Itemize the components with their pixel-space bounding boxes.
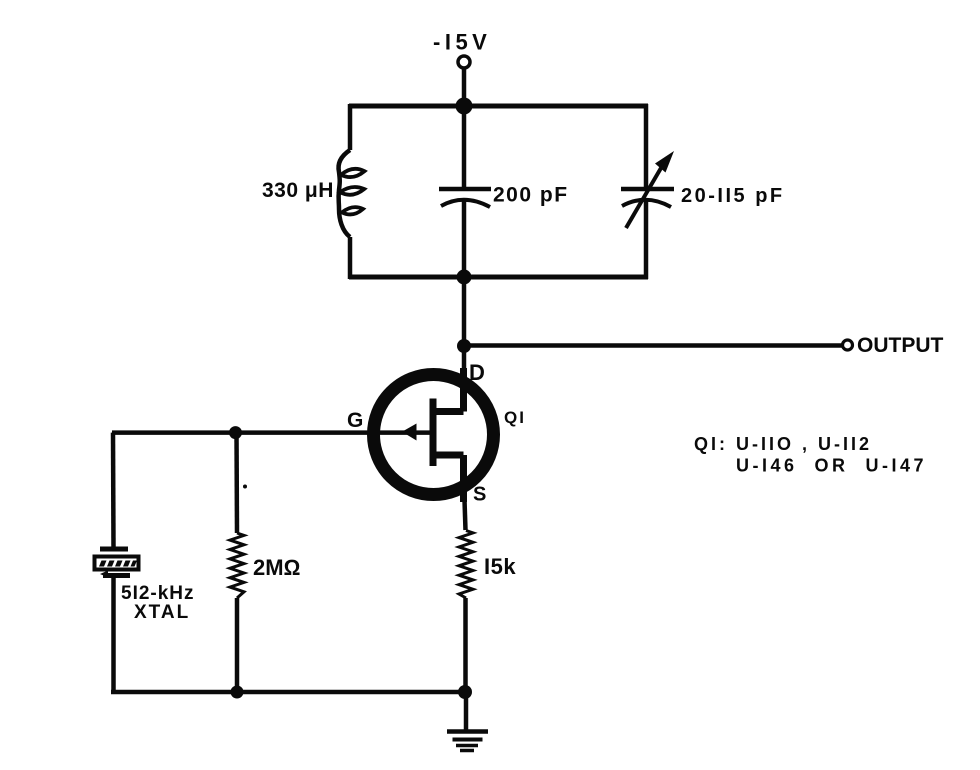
svg-text:QI: U-IIO , U-II2: QI: U-IIO , U-II2 <box>694 434 872 454</box>
svg-text:20-II5 pF: 20-II5 pF <box>681 185 785 207</box>
svg-text:200 pF: 200 pF <box>493 184 569 207</box>
svg-text:XTAL: XTAL <box>134 602 190 623</box>
svg-text:2MΩ: 2MΩ <box>253 555 300 580</box>
svg-text:U-I46 OR U-I47: U-I46 OR U-I47 <box>736 456 927 476</box>
svg-text:330 μH: 330 μH <box>262 179 334 202</box>
svg-text:S: S <box>473 484 486 506</box>
svg-text:I5k: I5k <box>484 554 516 579</box>
svg-text:-I5V: -I5V <box>433 30 491 55</box>
svg-text:QI: QI <box>504 408 526 427</box>
svg-text:5I2-kHz: 5I2-kHz <box>121 583 195 604</box>
svg-text:OUTPUT: OUTPUT <box>857 334 944 357</box>
svg-text:D: D <box>469 360 485 385</box>
svg-text:G: G <box>347 409 363 432</box>
